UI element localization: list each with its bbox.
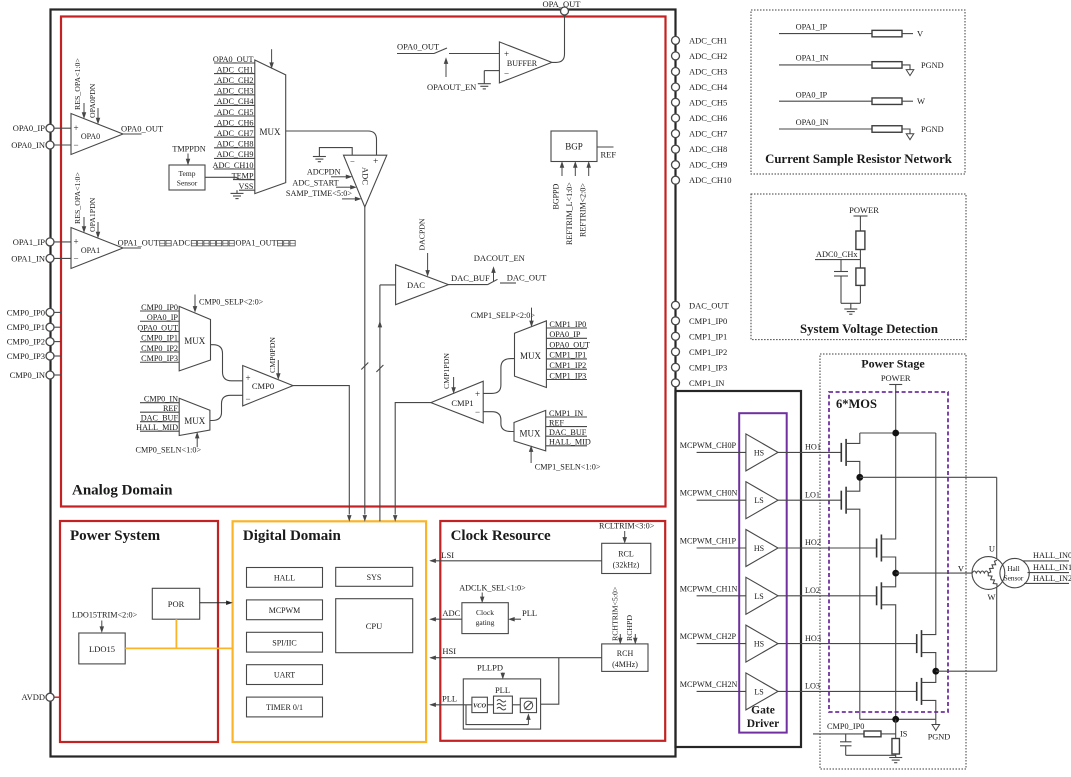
svg-text:LS: LS xyxy=(754,687,763,696)
svg-text:ADC_CH7: ADC_CH7 xyxy=(217,129,254,138)
svg-text:HS: HS xyxy=(754,544,764,553)
svg-text:OPA_OUT: OPA_OUT xyxy=(543,0,582,9)
svg-text:CMP1_IP3: CMP1_IP3 xyxy=(549,371,586,380)
svg-text:CMP0_IP1: CMP0_IP1 xyxy=(7,322,45,332)
svg-text:HALL_IN1: HALL_IN1 xyxy=(1033,563,1071,572)
svg-text:PLL: PLL xyxy=(522,608,537,618)
svg-text:ADC_CH6: ADC_CH6 xyxy=(689,113,727,123)
svg-text:HALL_IN2: HALL_IN2 xyxy=(1033,574,1071,583)
svg-text:VSS: VSS xyxy=(238,182,253,191)
svg-text:OPA0PDN: OPA0PDN xyxy=(88,83,97,118)
svg-text:SPI/IIC: SPI/IIC xyxy=(272,638,296,647)
svg-text:OPA0_OUT: OPA0_OUT xyxy=(213,55,254,64)
svg-text:RCLTRIM<3:0>: RCLTRIM<3:0> xyxy=(599,522,655,531)
svg-text:HALL: HALL xyxy=(274,574,295,583)
svg-text:ADC_CH4: ADC_CH4 xyxy=(217,97,254,106)
svg-text:ADC_CH5: ADC_CH5 xyxy=(217,108,254,117)
svg-text:OPA0_IN: OPA0_IN xyxy=(11,140,45,150)
svg-text:+: + xyxy=(246,373,251,383)
svg-text:OPA1_IP: OPA1_IP xyxy=(796,23,828,32)
svg-text:IS: IS xyxy=(900,730,908,739)
svg-text:ADC: ADC xyxy=(442,608,460,618)
svg-text:−: − xyxy=(74,140,79,150)
svg-text:+: + xyxy=(74,123,79,133)
svg-text:Hall: Hall xyxy=(1007,565,1019,573)
svg-text:CMP0_IP2: CMP0_IP2 xyxy=(141,344,178,353)
svg-text:REF: REF xyxy=(549,418,564,427)
svg-text:DAC: DAC xyxy=(407,280,425,290)
svg-text:CMP1_SELP<2:0>: CMP1_SELP<2:0> xyxy=(471,311,536,320)
svg-text:gating: gating xyxy=(476,618,495,627)
svg-text:MUX: MUX xyxy=(519,429,541,439)
svg-text:LDO15TRIM<2:0>: LDO15TRIM<2:0> xyxy=(72,611,138,620)
svg-text:SYS: SYS xyxy=(367,573,382,582)
svg-text:ADC_START: ADC_START xyxy=(292,179,338,188)
svg-text:CPU: CPU xyxy=(366,621,383,631)
svg-text:OPA1_IP: OPA1_IP xyxy=(13,237,46,247)
svg-text:DACPDN: DACPDN xyxy=(418,218,427,250)
svg-text:ADCLK_SEL<1:0>: ADCLK_SEL<1:0> xyxy=(459,583,526,592)
svg-text:(32kHz): (32kHz) xyxy=(613,561,640,570)
svg-text:OPA1_IN: OPA1_IN xyxy=(11,253,45,263)
svg-text:POR: POR xyxy=(168,599,185,609)
svg-text:Sensor: Sensor xyxy=(177,179,198,188)
svg-text:ADC_CH9: ADC_CH9 xyxy=(217,150,254,159)
svg-text:OPA1PDN: OPA1PDN xyxy=(88,197,97,232)
svg-text:OPA0_OUT: OPA0_OUT xyxy=(121,124,164,134)
svg-text:MCPWM_CH2P: MCPWM_CH2P xyxy=(680,632,737,641)
svg-text:OPA0_IP: OPA0_IP xyxy=(549,330,581,339)
svg-text:ADC_CH1: ADC_CH1 xyxy=(689,35,727,45)
svg-text:POWER: POWER xyxy=(881,373,911,383)
svg-text:CMP0_IP0: CMP0_IP0 xyxy=(827,722,864,731)
svg-text:DAC_OUT: DAC_OUT xyxy=(689,300,729,310)
svg-text:RES_OPA<1:0>: RES_OPA<1:0> xyxy=(73,58,82,110)
svg-text:+: + xyxy=(475,389,480,399)
svg-text:ADC_CH7: ADC_CH7 xyxy=(689,129,727,139)
svg-text:CMP1_IN: CMP1_IN xyxy=(689,378,724,388)
svg-text:+: + xyxy=(373,157,378,167)
svg-text:+: + xyxy=(504,49,509,59)
svg-text:OPA0_OUT: OPA0_OUT xyxy=(549,340,590,349)
svg-text:RCL: RCL xyxy=(618,550,634,559)
svg-text:ADC_CH6: ADC_CH6 xyxy=(217,118,254,127)
svg-text:U: U xyxy=(989,544,995,554)
svg-text:Temp: Temp xyxy=(179,169,196,178)
svg-text:Clock Resource: Clock Resource xyxy=(451,528,551,544)
svg-text:MCPWM_CH1N: MCPWM_CH1N xyxy=(680,584,738,593)
svg-text:MUX: MUX xyxy=(520,351,542,361)
svg-text:Analog Domain: Analog Domain xyxy=(72,483,173,499)
svg-text:+: + xyxy=(74,237,79,247)
svg-text:OPA1: OPA1 xyxy=(81,246,100,255)
svg-text:BGPPD: BGPPD xyxy=(552,183,561,209)
svg-text:AVDD: AVDD xyxy=(22,692,45,702)
svg-text:V: V xyxy=(958,563,965,573)
svg-text:DACOUT_EN: DACOUT_EN xyxy=(474,253,525,263)
svg-text:W: W xyxy=(987,592,995,602)
svg-text:PGND: PGND xyxy=(921,125,944,134)
svg-text:HS: HS xyxy=(754,448,764,457)
svg-text:MCPWM_CH1P: MCPWM_CH1P xyxy=(680,537,737,546)
svg-text:ADC_CH4: ADC_CH4 xyxy=(689,82,728,92)
svg-text:POWER: POWER xyxy=(849,205,879,215)
svg-text:REFTRIM_L<1:0>: REFTRIM_L<1:0> xyxy=(565,182,574,245)
svg-text:VCO: VCO xyxy=(473,703,486,710)
svg-text:ADC_CH3: ADC_CH3 xyxy=(689,67,727,77)
svg-text:PLL: PLL xyxy=(495,685,510,695)
svg-text:CMP1_SELN<1:0>: CMP1_SELN<1:0> xyxy=(535,462,601,471)
svg-text:LO3: LO3 xyxy=(805,682,820,691)
svg-text:BGP: BGP xyxy=(565,142,583,152)
svg-text:OPA0: OPA0 xyxy=(81,132,100,141)
svg-text:CMP0_IN: CMP0_IN xyxy=(10,370,45,380)
svg-text:RCHPD: RCHPD xyxy=(625,615,634,641)
svg-text:CMP1PDN: CMP1PDN xyxy=(442,353,451,389)
svg-text:W: W xyxy=(917,96,925,106)
svg-text:DAC_OUT: DAC_OUT xyxy=(507,272,547,282)
svg-text:HSI: HSI xyxy=(442,646,456,656)
svg-text:MUX: MUX xyxy=(259,127,281,137)
svg-text:CMP1_IP0: CMP1_IP0 xyxy=(689,316,727,326)
svg-text:CMP0_IP3: CMP0_IP3 xyxy=(141,354,178,363)
svg-text:ADC_CH2: ADC_CH2 xyxy=(689,51,727,61)
svg-text:ADC_CH8: ADC_CH8 xyxy=(217,140,254,149)
svg-text:ADC_CH3: ADC_CH3 xyxy=(217,87,254,96)
svg-text:MCPWM_CH2N: MCPWM_CH2N xyxy=(680,680,738,689)
svg-text:LSI: LSI xyxy=(441,550,454,560)
svg-text:CMP0PDN: CMP0PDN xyxy=(268,337,277,373)
svg-text:Driver: Driver xyxy=(747,718,780,730)
svg-text:HO1: HO1 xyxy=(805,443,821,452)
svg-text:CMP0: CMP0 xyxy=(252,381,274,391)
svg-text:PGND: PGND xyxy=(928,732,951,741)
svg-text:REF: REF xyxy=(601,150,617,160)
svg-text:CMP1_IP1: CMP1_IP1 xyxy=(549,351,586,360)
svg-text:HO3: HO3 xyxy=(805,634,821,643)
svg-text:BUFFER: BUFFER xyxy=(507,59,538,68)
svg-text:CMP1_IN: CMP1_IN xyxy=(549,409,583,418)
svg-text:−: − xyxy=(246,394,251,404)
svg-text:CMP0_SELN<1:0>: CMP0_SELN<1:0> xyxy=(136,446,202,455)
svg-text:−: − xyxy=(350,156,355,166)
svg-text:RES_OPA<1:0>: RES_OPA<1:0> xyxy=(73,172,82,224)
svg-text:HO2: HO2 xyxy=(805,538,821,547)
svg-text:CMP0_SELP<2:0>: CMP0_SELP<2:0> xyxy=(199,298,264,307)
svg-text:Clock: Clock xyxy=(476,608,494,617)
svg-text:CMP0_IN: CMP0_IN xyxy=(144,395,178,404)
svg-text:OPA0_OUT: OPA0_OUT xyxy=(137,323,178,332)
svg-text:CMP0_IP0: CMP0_IP0 xyxy=(7,307,45,317)
svg-text:LS: LS xyxy=(754,496,763,505)
svg-text:DAC_BUF: DAC_BUF xyxy=(141,414,179,423)
svg-text:OPA1_IN: OPA1_IN xyxy=(796,54,829,63)
svg-text:CMP0_IP0: CMP0_IP0 xyxy=(141,303,178,312)
svg-text:MCPWM_CH0N: MCPWM_CH0N xyxy=(680,489,738,498)
svg-text:SAMP_TIME<5:0>: SAMP_TIME<5:0> xyxy=(286,189,352,198)
svg-text:Gate: Gate xyxy=(751,705,775,717)
svg-text:UART: UART xyxy=(274,671,295,680)
svg-text:OPA0_IP: OPA0_IP xyxy=(13,123,46,133)
svg-text:ADC_CH5: ADC_CH5 xyxy=(689,97,727,107)
svg-text:Current Sample Resistor Networ: Current Sample Resistor Network xyxy=(765,152,953,166)
svg-text:−: − xyxy=(74,254,79,264)
svg-text:HALL_MID: HALL_MID xyxy=(549,438,591,447)
svg-text:ADC_CH1: ADC_CH1 xyxy=(217,65,254,74)
svg-text:V: V xyxy=(917,29,924,39)
svg-text:MUX: MUX xyxy=(184,336,206,346)
svg-text:MUX: MUX xyxy=(184,416,206,426)
svg-text:TMPPDN: TMPPDN xyxy=(172,144,205,153)
svg-text:CMP0_IP2: CMP0_IP2 xyxy=(7,337,45,347)
svg-text:Power Stage: Power Stage xyxy=(861,357,925,371)
svg-text:−: − xyxy=(475,407,480,417)
svg-text:PGND: PGND xyxy=(921,61,944,70)
svg-text:OPA0_OUT: OPA0_OUT xyxy=(397,42,440,52)
svg-text:MCPWM_CH0P: MCPWM_CH0P xyxy=(680,441,737,450)
svg-text:LDO15: LDO15 xyxy=(89,644,115,654)
svg-text:TEMP: TEMP xyxy=(232,171,254,180)
svg-text:HALL_IN0: HALL_IN0 xyxy=(1033,551,1071,560)
svg-text:Sensor: Sensor xyxy=(1004,575,1024,583)
svg-text:OPA0_IP: OPA0_IP xyxy=(147,313,179,322)
svg-text:ADC: ADC xyxy=(361,167,371,185)
svg-text:MCPWM: MCPWM xyxy=(269,606,301,615)
svg-text:CMP1_IP2: CMP1_IP2 xyxy=(549,361,586,370)
svg-text:HALL_MID: HALL_MID xyxy=(136,423,178,432)
svg-text:RCHTRIM<5:0>: RCHTRIM<5:0> xyxy=(611,586,620,641)
svg-text:OPA0_IP: OPA0_IP xyxy=(796,91,828,100)
svg-text:CMP0_IP3: CMP0_IP3 xyxy=(7,351,45,361)
svg-text:TIMER 0/1: TIMER 0/1 xyxy=(266,703,303,712)
svg-text:CMP1_IP0: CMP1_IP0 xyxy=(549,320,586,329)
svg-text:DAC_BUF: DAC_BUF xyxy=(451,273,490,283)
svg-text:−: − xyxy=(504,69,509,79)
svg-text:ADC_CH9: ADC_CH9 xyxy=(689,160,727,170)
svg-text:REFTRIM<2:0>: REFTRIM<2:0> xyxy=(579,183,588,237)
svg-text:HS: HS xyxy=(754,640,764,649)
svg-text:(4MHz): (4MHz) xyxy=(612,660,638,669)
svg-text:CMP0_IP1: CMP0_IP1 xyxy=(141,334,178,343)
svg-text:ADCPDN: ADCPDN xyxy=(307,167,341,176)
svg-text:REF: REF xyxy=(163,404,178,413)
svg-text:ADC_CH8: ADC_CH8 xyxy=(689,144,727,154)
svg-text:CMP1_IP3: CMP1_IP3 xyxy=(689,362,727,372)
svg-text:Power System: Power System xyxy=(70,528,161,544)
svg-text:Digital Domain: Digital Domain xyxy=(243,528,342,544)
svg-text:PLL: PLL xyxy=(442,693,457,703)
svg-text:OPA0_IN: OPA0_IN xyxy=(796,118,829,127)
svg-text:CMP1_IP1: CMP1_IP1 xyxy=(689,331,727,341)
svg-text:ADC_CH10: ADC_CH10 xyxy=(213,161,254,170)
svg-text:OPAOUT_EN: OPAOUT_EN xyxy=(427,82,476,92)
svg-text:ADC_CH10: ADC_CH10 xyxy=(689,175,732,185)
svg-text:DAC_BUF: DAC_BUF xyxy=(549,428,587,437)
svg-text:System Voltage Detection: System Voltage Detection xyxy=(800,322,938,336)
svg-text:LO2: LO2 xyxy=(805,586,820,595)
svg-text:OPA1_OUT: OPA1_OUT xyxy=(118,239,159,248)
svg-text:LS: LS xyxy=(754,592,763,601)
svg-text:ADC: ADC xyxy=(172,239,190,248)
svg-text:LO1: LO1 xyxy=(805,490,820,499)
svg-text:OPA1_OUT: OPA1_OUT xyxy=(236,239,277,248)
svg-text:RCH: RCH xyxy=(617,649,634,658)
svg-text:PLLPD: PLLPD xyxy=(477,662,503,672)
svg-text:CMP1: CMP1 xyxy=(451,398,473,408)
svg-text:6*MOS: 6*MOS xyxy=(836,397,877,411)
svg-text:ADC_CH2: ADC_CH2 xyxy=(217,76,254,85)
svg-text:CMP1_IP2: CMP1_IP2 xyxy=(689,347,727,357)
svg-text:ADC0_CHx: ADC0_CHx xyxy=(816,250,858,259)
